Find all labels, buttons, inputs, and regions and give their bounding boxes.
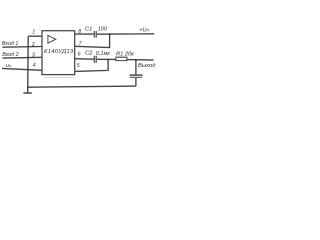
svg-text:C1: C1: [85, 27, 92, 33]
wire output dropper: [135, 60, 137, 75]
svg-text:8: 8: [78, 29, 81, 35]
svg-text:1: 1: [32, 29, 35, 35]
junction node output/C3: [135, 59, 137, 61]
wire +Un rail: [97, 33, 155, 35]
wire pin 3 (Вход 2): [3, 56, 43, 59]
wire pin 2 (Вход 1): [3, 46, 43, 49]
wire R1 to output: [127, 59, 154, 62]
ground symbol: [23, 92, 31, 94]
wire C3 to rail: [135, 78, 137, 87]
svg-text:6: 6: [78, 52, 81, 58]
junction node pin3/ground bus: [27, 57, 29, 59]
svg-text:100: 100: [98, 27, 108, 33]
capacitor C3 (load, unlabeled) plates: [130, 74, 143, 76]
wire C2 to R1: [97, 58, 116, 60]
svg-text:C2: C2: [85, 50, 93, 56]
svg-text:0,1мк: 0,1мк: [96, 51, 110, 57]
junction node pin5/R1 input: [107, 59, 109, 61]
svg-text:Вход 1: Вход 1: [2, 41, 19, 47]
junction node pin4/ground bus crossing blob: [27, 69, 29, 71]
op-amp U1 body К140УД13: [42, 31, 75, 75]
svg-text:Выход: Выход: [138, 63, 156, 69]
amplifier triangle symbol: [48, 35, 56, 43]
capacitor C1 plates: [94, 31, 96, 38]
resistor R1: [116, 57, 127, 60]
wire ground bus vertical: [27, 36, 30, 93]
wire pin 4 (-Un): [2, 68, 42, 70]
capacitor C2 plates: [94, 56, 96, 63]
svg-text:3: 3: [32, 53, 35, 59]
svg-text:Вход 2: Вход 2: [2, 52, 19, 58]
wire pin 6: [75, 58, 94, 61]
svg-text:К140УД13: К140УД13: [44, 49, 74, 55]
svg-text:4: 4: [33, 62, 36, 68]
junction node pin2/ground bus: [27, 46, 29, 48]
wire pin 7 with riser: [75, 34, 110, 47]
wire bottom rail: [28, 86, 136, 87]
wire pin 5 with riser: [75, 60, 108, 72]
scan ghost line under IC box: [45, 76, 75, 79]
svg-text:5: 5: [77, 63, 80, 69]
svg-text:R1 20к: R1 20к: [116, 51, 134, 57]
svg-text:2: 2: [31, 42, 35, 48]
wire pin 1 stub: [28, 35, 42, 37]
wire pin 8: [75, 33, 94, 35]
junction node rail/ground bus: [27, 86, 29, 88]
junction node pin7/+Un: [109, 33, 111, 35]
